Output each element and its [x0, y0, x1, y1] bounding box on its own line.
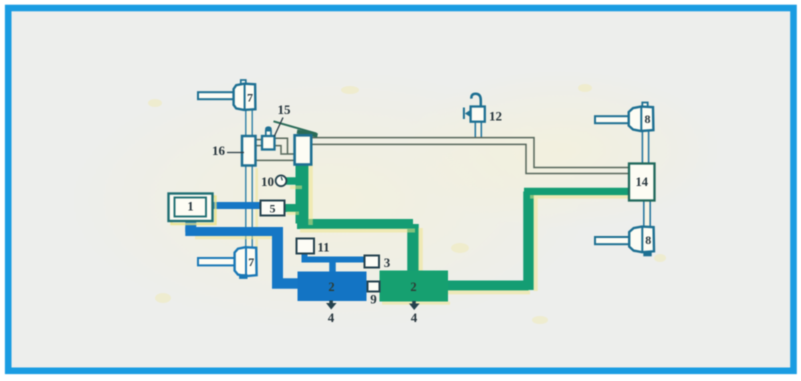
svg-text:7: 7 [248, 255, 254, 269]
pedal lever [274, 121, 318, 135]
svg-text:15: 15 [278, 102, 292, 117]
wheel cylinder 8 (bottom right) [595, 227, 654, 256]
outlet arrow 4 (blue pump) [326, 301, 337, 310]
yellow print-offset fringes [195, 163, 630, 305]
svg-text:11: 11 [317, 240, 329, 255]
line: master cylinder to valve 14 (lower) [310, 144, 630, 173]
svg-text:2: 2 [328, 280, 334, 294]
valve 12 [464, 94, 485, 122]
svg-text:12: 12 [489, 109, 502, 124]
outlet arrow 4 (green pump) [409, 301, 420, 310]
wire: drop into green pump 2 [407, 224, 419, 272]
wire: reservoir 1 to restrictor 5 [211, 202, 262, 209]
pipe: valve 16 down to wheel cylinder 7 bottom [245, 165, 253, 250]
line: valve 16 bottom to master cylinder [255, 159, 295, 161]
svg-text:9: 9 [370, 292, 377, 307]
wire: branch down into blue pump top [329, 260, 336, 273]
svg-text:7: 7 [247, 91, 253, 105]
wire: green horizontal to pump drop [297, 219, 413, 229]
reservoir 1 [169, 194, 216, 225]
master cylinder [295, 135, 312, 164]
wire: reservoir 1 down, across, down into blue pump 2 [185, 218, 196, 232]
restrictor 5 [261, 201, 285, 216]
label pointer 16 [227, 152, 244, 154]
pump 2 (green circuit) [380, 271, 449, 302]
wire: switch 10 to green leg [286, 177, 300, 185]
wire: switch 11 branch to 3 and into blue pump 2 [305, 252, 369, 260]
pressure valve 16 [242, 136, 256, 166]
svg-text:5: 5 [270, 202, 276, 216]
wire: green pump 2 to valve 14 [446, 281, 529, 291]
line: valve 16 to switch 15 (lower stub) [255, 145, 263, 147]
svg-text:8: 8 [645, 112, 651, 126]
wire: master cylinder down leg (green) [296, 158, 309, 224]
pressure switch 10 [276, 175, 287, 186]
svg-text:16: 16 [212, 143, 226, 158]
label pointer 15 [274, 118, 283, 137]
wire: restrictor 5 to green leg [284, 204, 300, 212]
line: switch 15 right to master cylinder (inner) [274, 146, 281, 154]
stop-light switch 15 [262, 126, 275, 149]
svg-text:3: 3 [384, 255, 391, 270]
pipe: valve 12 drop to upper line [474, 121, 482, 138]
pipe: wheel cylinder 7 top to valve 16 [245, 107, 253, 138]
pipe: valve 14 down to wheel cylinder 8 bottom [643, 199, 651, 228]
line: switch 15 right to master cylinder (outer) [274, 138, 288, 154]
wheel cylinder 8 (top right) [595, 103, 653, 132]
connector 9 between pumps [368, 282, 380, 292]
line: valve 16 to switch 15 (upper stub) [255, 139, 263, 141]
svg-text:4: 4 [328, 310, 335, 325]
svg-text:8: 8 [645, 233, 651, 247]
svg-text:14: 14 [636, 175, 649, 189]
svg-text:2: 2 [410, 280, 416, 294]
pipe: wheel cylinder 8 top down to valve 14 [642, 129, 650, 165]
wheel cylinder 7 (bottom left) [198, 247, 257, 278]
svg-text:4: 4 [411, 310, 418, 325]
switch 3 [365, 256, 380, 268]
line: shared segment into master cylinder [280, 153, 295, 155]
switch 11 [297, 239, 315, 254]
distribution valve 14 [629, 164, 655, 201]
pump 2 (blue circuit) [298, 272, 367, 302]
wheel cylinder 7 (top left) [198, 80, 255, 110]
line: master cylinder to valve 14 (upper) [310, 138, 630, 168]
svg-text:1: 1 [187, 200, 193, 214]
svg-text:10: 10 [261, 174, 274, 189]
